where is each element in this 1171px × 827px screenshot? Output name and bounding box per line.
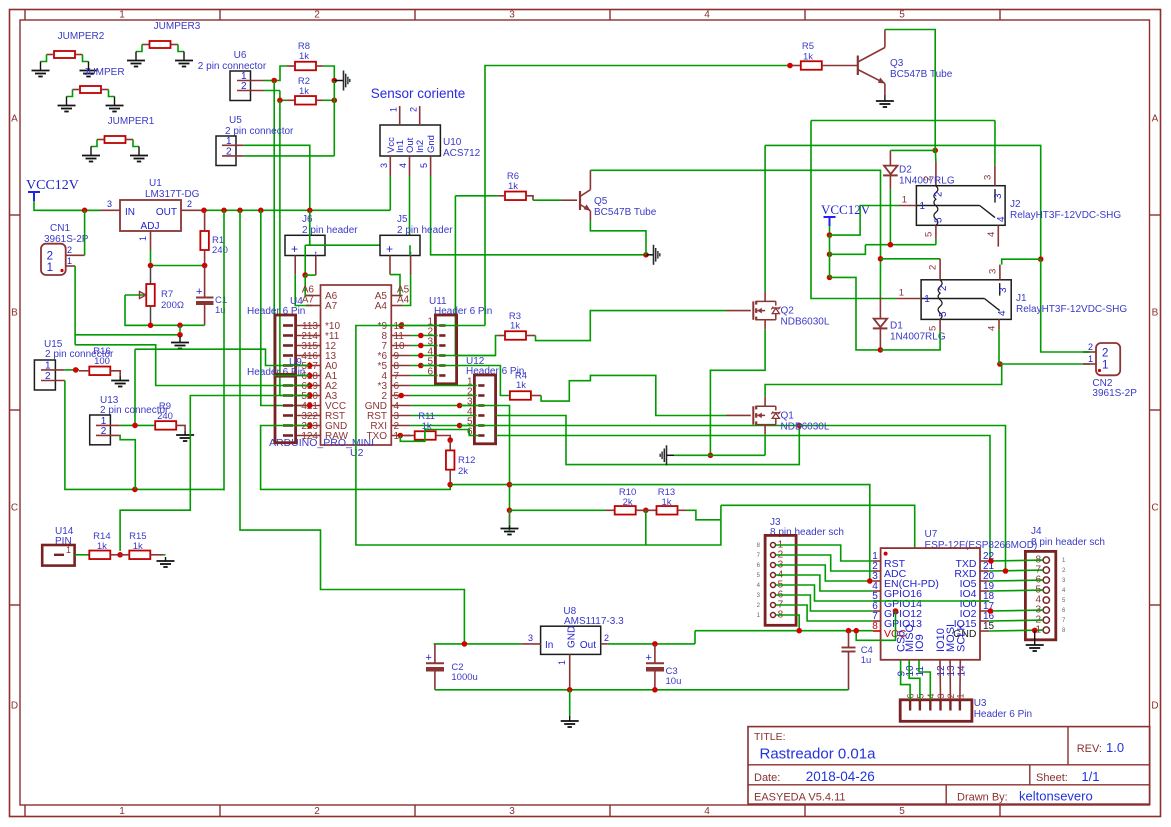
svg-text:3: 3 xyxy=(988,269,999,274)
CN2 pin2 lead xyxy=(1083,351,1096,353)
wire R10R13 node down to J3 line xyxy=(645,510,647,545)
wire D1 row to J1.5 xyxy=(880,331,940,350)
wire node to A6 xyxy=(305,275,312,295)
svg-text:D2: D2 xyxy=(899,165,912,176)
svg-text:D: D xyxy=(1151,701,1158,712)
node ADJ left xyxy=(148,263,154,269)
node R12 bottom xyxy=(447,482,453,488)
node bottom row R7 xyxy=(148,323,154,329)
wire J5.1 to A5 xyxy=(390,275,400,296)
svg-text:2: 2 xyxy=(187,199,192,209)
J4 pin 1 xyxy=(1043,627,1049,633)
svg-text:1: 1 xyxy=(67,256,72,266)
wire J3.2 to U7 xyxy=(776,555,873,571)
node R16 xyxy=(73,367,79,373)
node ground row xyxy=(177,332,183,338)
R7 wiper arrow xyxy=(125,294,144,296)
node gnd bus Q2 xyxy=(708,453,714,459)
svg-text:R7: R7 xyxy=(161,289,173,300)
wire VCC2 to J2.5/D2 xyxy=(830,245,866,255)
svg-text:Gnd: Gnd xyxy=(426,135,437,153)
ground R9 xyxy=(184,431,186,435)
svg-text:TXO: TXO xyxy=(366,431,387,442)
node x1040 J1.3 xyxy=(1038,256,1044,262)
U10 pin4 lead xyxy=(409,156,411,176)
node R2/U6.2 xyxy=(277,98,283,104)
svg-text:4: 4 xyxy=(986,232,997,237)
gnd bus bottom xyxy=(435,689,849,691)
U2 pin GND xyxy=(391,405,410,407)
svg-text:4: 4 xyxy=(997,310,1008,316)
svg-text:REV:: REV: xyxy=(1077,743,1102,755)
U7 pin 2 ADC xyxy=(873,570,881,572)
node D1 bottom xyxy=(878,347,884,353)
node VCC2 xyxy=(827,252,833,258)
ground left Q1/Q2 xyxy=(666,445,668,465)
svg-text:Drawn By:: Drawn By: xyxy=(957,792,1008,804)
node R10/R13 xyxy=(643,508,649,514)
wire R8 right xyxy=(323,66,334,81)
U8 In lead xyxy=(521,643,540,645)
wire row 4 to U11.6 xyxy=(411,375,438,377)
svg-text:JUMPER2: JUMPER2 xyxy=(58,31,105,42)
J6 pin2 lead xyxy=(315,256,317,276)
svg-text:U10: U10 xyxy=(443,137,462,148)
node VCC3 xyxy=(827,275,833,281)
wire row *9 to U11.1 xyxy=(411,325,438,327)
node R8/R2 right xyxy=(332,78,338,84)
svg-text:Header 6 Pin: Header 6 Pin xyxy=(974,709,1032,720)
wire ADJ row xyxy=(151,265,205,267)
svg-text:14: 14 xyxy=(956,665,967,677)
svg-text:1: 1 xyxy=(66,545,71,555)
svg-text:U7: U7 xyxy=(925,529,938,540)
svg-text:NDB6030L: NDB6030L xyxy=(781,421,830,432)
wire R2 right xyxy=(323,99,334,101)
svg-text:OUT: OUT xyxy=(156,207,177,218)
node C3 bottom xyxy=(652,687,658,693)
node rail CN1 xyxy=(82,208,88,214)
svg-text:R5: R5 xyxy=(802,41,814,52)
wire U7 row 3 to J4 xyxy=(989,589,1043,592)
J3 pin 1 xyxy=(771,543,776,548)
svg-text:U2: U2 xyxy=(350,447,364,459)
wire U6.1 net down (to A1) xyxy=(273,81,275,376)
svg-text:RelayHT3F-12VDC-SHG: RelayHT3F-12VDC-SHG xyxy=(1016,304,1127,315)
svg-text:Q3: Q3 xyxy=(890,58,904,69)
wire R3 to Q2 gate xyxy=(536,311,727,341)
wire A0 from U13 net xyxy=(135,349,310,365)
J1 pin3 xyxy=(999,265,1001,280)
svg-text:GND: GND xyxy=(567,626,578,648)
node rail OUT xyxy=(201,208,207,214)
wire R14/R15 node to A3 xyxy=(120,396,310,552)
wire TXO jog to U12.6 xyxy=(400,430,478,442)
svg-text:J4: J4 xyxy=(1031,526,1042,537)
wire U14 to R14 xyxy=(75,554,90,556)
wire row 9/*6 xyxy=(411,355,496,357)
svg-text:2: 2 xyxy=(604,633,609,643)
svg-text:200Ω: 200Ω xyxy=(161,300,184,311)
wire RST net east xyxy=(496,416,800,465)
wire U5.1 to rail xyxy=(244,145,310,210)
wire A1 from U6.1 net xyxy=(274,375,310,377)
svg-text:8: 8 xyxy=(872,621,878,632)
svg-text:ESP-12F(ESP8266MOD): ESP-12F(ESP8266MOD) xyxy=(925,540,1038,551)
wire VCC12V to rail xyxy=(34,201,100,210)
svg-text:11: 11 xyxy=(915,666,926,677)
wire U8 gnd down xyxy=(569,690,571,716)
node R5 left xyxy=(787,63,793,69)
U7 pin 19 IO4 xyxy=(980,590,989,592)
U8 Out lead xyxy=(601,643,608,645)
U7 pin 8 VCC xyxy=(873,630,881,632)
node bus1/U13.2 xyxy=(132,487,138,493)
node TXO xyxy=(398,433,404,439)
nodes on left stub rows xyxy=(307,363,313,369)
svg-text:J5: J5 xyxy=(397,214,408,225)
U2 pin RXI xyxy=(391,425,410,427)
svg-text:5: 5 xyxy=(928,326,939,331)
U7 pin 7 GPIO13 xyxy=(873,620,881,622)
U3 pin 3 xyxy=(939,700,941,711)
U1 pin2 lead xyxy=(181,209,204,211)
J4 pin 4 xyxy=(1043,597,1049,603)
svg-text:100: 100 xyxy=(94,356,110,367)
U2 pin RAW xyxy=(296,435,321,437)
wire R7 wiper to bottom xyxy=(125,295,146,325)
svg-text:C: C xyxy=(11,503,18,514)
wire U7 row 7 to J4 xyxy=(989,629,1043,632)
svg-text:1k: 1k xyxy=(516,380,526,391)
wire In line xyxy=(434,643,522,645)
U2 pin A3 xyxy=(296,395,321,397)
svg-text:VCC12V: VCC12V xyxy=(26,178,79,193)
U7 pin 6 GPIO12 xyxy=(873,610,881,612)
wire J1.4 down to node xyxy=(998,330,1000,364)
svg-text:A7: A7 xyxy=(325,301,338,312)
wire J2.5 to D2 row xyxy=(935,239,937,245)
J3 pin 5 xyxy=(771,583,776,588)
U2 pin 2 xyxy=(391,395,410,397)
wire to J1.2 xyxy=(881,258,941,260)
U3 pin 1 xyxy=(959,700,961,711)
wire GND row to U12.3 xyxy=(411,405,477,407)
U2 pin *11 xyxy=(296,335,321,337)
wire U5.1 feed down to J6/J5 xyxy=(309,210,311,245)
wire J3.8 to VCC line xyxy=(776,615,799,631)
node J1.2 branch xyxy=(878,256,884,262)
wire GND row to R12 net xyxy=(261,426,451,490)
wire R2 left xyxy=(280,99,287,101)
wire to ground row xyxy=(179,325,181,335)
wire rail drop x261 to arduino VCC xyxy=(261,210,310,405)
wire y120 J2.3-J1.1 xyxy=(811,120,995,122)
svg-text:1: 1 xyxy=(902,195,907,206)
wire Q3 collector to main xyxy=(885,30,935,146)
wire U12.3 through to x510 xyxy=(460,406,510,531)
svg-text:A7: A7 xyxy=(302,295,315,306)
wire J3.1 to U7 xyxy=(776,545,873,561)
U2 pin VCC xyxy=(296,405,321,407)
U2 pin A4 xyxy=(391,305,402,307)
svg-text:2: 2 xyxy=(409,107,419,112)
svg-text:D: D xyxy=(11,701,18,712)
wire *9 to R5 (up right) xyxy=(485,66,790,326)
VCC 3.3 line xyxy=(695,630,873,632)
svg-text:RelayHT3F-12VDC-SHG: RelayHT3F-12VDC-SHG xyxy=(1010,210,1121,221)
svg-text:3: 3 xyxy=(509,10,515,21)
wire Q2 source down xyxy=(710,330,765,456)
node R14/R15 xyxy=(117,552,123,558)
wire U13.1 to R9 xyxy=(120,424,155,426)
svg-text:In: In xyxy=(545,640,553,651)
J5 pin1 lead xyxy=(389,256,391,275)
node TXD xyxy=(988,558,994,564)
svg-text:3: 3 xyxy=(993,193,1004,199)
wire J3.5 to U7 xyxy=(776,585,873,601)
svg-text:J1: J1 xyxy=(1016,293,1027,304)
svg-text:RAW: RAW xyxy=(325,431,349,442)
svg-text:5: 5 xyxy=(899,10,905,21)
svg-text:2018-04-26: 2018-04-26 xyxy=(806,769,875,784)
svg-text:8 pin header sch: 8 pin header sch xyxy=(1031,537,1105,548)
U2 pin 4 xyxy=(391,375,410,377)
VCC rail wire xyxy=(40,209,100,211)
svg-text:124: 124 xyxy=(301,431,318,442)
node gnd row Q5 xyxy=(643,252,649,258)
node bottom row mid xyxy=(177,323,183,329)
svg-text:2k: 2k xyxy=(458,466,468,477)
node EN xyxy=(867,578,873,584)
svg-text:Q2: Q2 xyxy=(781,306,795,317)
svg-text:1N4007RLG: 1N4007RLG xyxy=(890,332,946,343)
svg-text:J6: J6 xyxy=(302,214,313,225)
svg-text:1: 1 xyxy=(1088,354,1093,364)
wire right node down to U5.2 xyxy=(333,81,335,156)
svg-text:Rastreador 0.01a: Rastreador 0.01a xyxy=(760,746,877,763)
wire row 10 xyxy=(411,345,438,347)
svg-text:1: 1 xyxy=(389,107,399,112)
svg-text:A: A xyxy=(11,114,18,125)
wire row 2 to U12.2 xyxy=(411,395,477,397)
wire J6.2 to node xyxy=(305,274,316,276)
svg-text:JUMPER1: JUMPER1 xyxy=(108,116,155,127)
transistor Q2 NDB6030L xyxy=(726,310,751,312)
wire U7 row 6 to J4 xyxy=(989,619,1043,622)
wire U13 net up xyxy=(134,349,136,425)
wire D2 top to main xyxy=(890,149,935,151)
U10 pin2 In2 stub xyxy=(419,106,421,125)
ground U8 xyxy=(569,716,571,721)
J4 pin 6 xyxy=(1043,577,1049,583)
node VCC1 xyxy=(827,232,833,238)
wire VCC3 to D1/J1.5 row xyxy=(830,277,881,350)
svg-text:5: 5 xyxy=(924,232,935,237)
svg-text:+: + xyxy=(196,286,202,298)
U7 pin 18 IO0 xyxy=(980,600,989,602)
svg-text:A4: A4 xyxy=(397,295,410,306)
wire J6-J5 link xyxy=(305,244,410,246)
svg-text:D1: D1 xyxy=(890,321,903,332)
svg-text:C: C xyxy=(1151,503,1158,514)
U2 pin *10 xyxy=(296,325,321,327)
wire U7 row 0 to J4 xyxy=(989,559,1043,562)
J5 pin2 lead xyxy=(410,256,412,276)
J2 pin4 xyxy=(997,225,999,246)
svg-text:2: 2 xyxy=(47,251,53,263)
wire Q1 source to gnd bus xyxy=(764,435,766,456)
svg-text:Q5: Q5 xyxy=(594,196,608,207)
svg-text:Q1: Q1 xyxy=(781,410,795,421)
svg-text:1000u: 1000u xyxy=(451,672,477,683)
svg-text:SCLK: SCLK xyxy=(955,623,967,652)
wire R4 to Q1 gate xyxy=(541,375,726,415)
svg-text:BC547B Tube: BC547B Tube xyxy=(890,69,953,80)
U7 pin 21 RXD xyxy=(980,570,989,572)
svg-text:Sheet:: Sheet: xyxy=(1036,772,1068,784)
CN1 pin1 lead xyxy=(66,265,75,267)
node C3 top xyxy=(652,641,658,647)
J4 pin 3 xyxy=(1043,607,1049,613)
J1 pin1 xyxy=(896,298,921,300)
U7 pin 5 GPIO14 xyxy=(873,600,881,602)
svg-text:3: 3 xyxy=(107,199,112,209)
svg-text:1k: 1k xyxy=(508,181,518,192)
svg-text:,: , xyxy=(314,242,317,256)
ground Q5 emitter row xyxy=(646,254,654,256)
svg-text:R12: R12 xyxy=(458,455,475,466)
svg-text:2: 2 xyxy=(67,245,72,255)
U2 pin *3 xyxy=(391,385,410,387)
J3 pin 2 xyxy=(771,553,776,558)
node D2/J2.5 xyxy=(888,242,894,248)
wire rail up to U10 Vcc xyxy=(389,176,391,210)
svg-text:4: 4 xyxy=(996,216,1007,222)
wire U5.2 to R8R2 gnd net xyxy=(244,155,335,157)
svg-text:5: 5 xyxy=(938,311,949,317)
wire Q1 drain to CN2.1 net xyxy=(765,364,1002,396)
U10 pin1 In1 stub xyxy=(399,106,401,125)
node In feed xyxy=(462,641,468,647)
wire ADJ down xyxy=(150,250,152,266)
wires U7 bottom to U3 xyxy=(901,660,911,700)
svg-text:AMS1117-3.3: AMS1117-3.3 xyxy=(564,616,624,627)
svg-text:1: 1 xyxy=(47,262,53,274)
node main/Q3 xyxy=(932,148,938,154)
wire *5 through to R4 xyxy=(421,366,510,396)
svg-text:IO9: IO9 xyxy=(914,634,926,652)
svg-text:3: 3 xyxy=(379,163,389,168)
svg-text:5: 5 xyxy=(934,217,945,223)
U7 pin 22 TXD xyxy=(980,560,989,562)
node VCC J3.8 xyxy=(796,628,802,634)
svg-text:U1: U1 xyxy=(149,178,162,189)
U2 pin RST xyxy=(391,415,410,417)
wire U15.2 down to bus1 xyxy=(65,381,224,490)
svg-text:Out: Out xyxy=(580,640,596,651)
wire J3.6 to U7 xyxy=(776,595,873,611)
svg-text:B: B xyxy=(1152,308,1159,319)
svg-text:EASYEDA V5.4.11: EASYEDA V5.4.11 xyxy=(754,792,846,804)
node J1.4/CN2.1 xyxy=(997,361,1003,367)
node IO2 xyxy=(988,608,994,614)
wire row 2 to R4 lead? node xyxy=(398,393,404,399)
svg-text:2: 2 xyxy=(1088,342,1093,352)
wire U7 row 1 to J4 xyxy=(989,569,1043,572)
wire *9 to J3 feed (down) xyxy=(356,326,721,546)
svg-text:TITLE:: TITLE: xyxy=(754,731,786,743)
svg-text:ADJ: ADJ xyxy=(141,221,160,232)
wire row 8 to R3 xyxy=(411,335,438,337)
J3 pin 8 xyxy=(771,613,776,618)
svg-text:4: 4 xyxy=(704,806,710,817)
svg-text:NDB6030L: NDB6030L xyxy=(781,317,830,328)
J6 pin1 lead xyxy=(294,256,296,275)
U2 pin *9 xyxy=(391,325,410,327)
U3 pin 5 xyxy=(919,700,921,711)
wire J6.1 to A7 xyxy=(295,275,312,306)
CN1 pin2 lead xyxy=(66,254,85,256)
J3 pin 3 xyxy=(771,563,776,568)
U7 pin 1 RST xyxy=(873,560,881,562)
R6 right lead xyxy=(526,196,533,200)
title block xyxy=(748,727,1150,805)
svg-text:2: 2 xyxy=(1102,348,1108,360)
svg-text:keltonsevero: keltonsevero xyxy=(1019,789,1093,804)
svg-text:Date:: Date: xyxy=(754,772,780,784)
wire rail drop x240 to U8 In xyxy=(240,210,464,644)
svg-text:1: 1 xyxy=(924,294,930,305)
wire U7 row 2 to J4 xyxy=(989,579,1043,582)
svg-text:A4: A4 xyxy=(375,301,388,312)
svg-text:1k: 1k xyxy=(510,321,520,332)
J1 pin5 xyxy=(939,319,941,331)
R11 to R12 top xyxy=(436,436,450,441)
wire U10 Out down to J5 xyxy=(409,176,411,245)
wire R13 to ESP top xyxy=(687,510,721,520)
node RXD xyxy=(1003,568,1009,574)
J2 pin1 xyxy=(899,205,916,207)
svg-text:10u: 10u xyxy=(666,676,682,687)
ground Q3 xyxy=(884,95,886,101)
wire A3 from U6.2 net xyxy=(280,395,310,397)
wire J3.3 to U7 xyxy=(776,565,873,581)
wire RXI row to U12.5 xyxy=(411,425,477,427)
svg-text:2: 2 xyxy=(938,285,949,291)
ground x510 xyxy=(509,510,511,524)
IC U2 ARDUINO_PRO_MINI xyxy=(321,285,392,445)
U2 pin A1 xyxy=(296,375,321,377)
U7 pin 4 GPIO16 xyxy=(873,590,881,592)
U7 pin 20 IO5 xyxy=(980,580,989,582)
wire CN1.1 down xyxy=(74,266,76,345)
wire VCC to J2.1 xyxy=(830,206,900,236)
U7 pin 15 GND xyxy=(980,630,989,632)
svg-text:2: 2 xyxy=(923,176,934,181)
svg-text:JUMPER3: JUMPER3 xyxy=(154,21,201,32)
svg-text:1: 1 xyxy=(899,288,904,299)
J3 pin 4 xyxy=(771,573,776,578)
svg-text:Sensor coriente: Sensor coriente xyxy=(371,86,466,101)
wire A2 from CN1.1 net xyxy=(75,345,310,386)
wire CN1.2 up to rail xyxy=(84,210,86,255)
J3 pin 7 xyxy=(771,603,776,608)
CN2 pin1 lead xyxy=(1083,363,1096,365)
transistor Q1 NDB6030L xyxy=(726,414,751,416)
ground R15 xyxy=(163,554,165,556)
svg-text:3: 3 xyxy=(528,633,533,643)
